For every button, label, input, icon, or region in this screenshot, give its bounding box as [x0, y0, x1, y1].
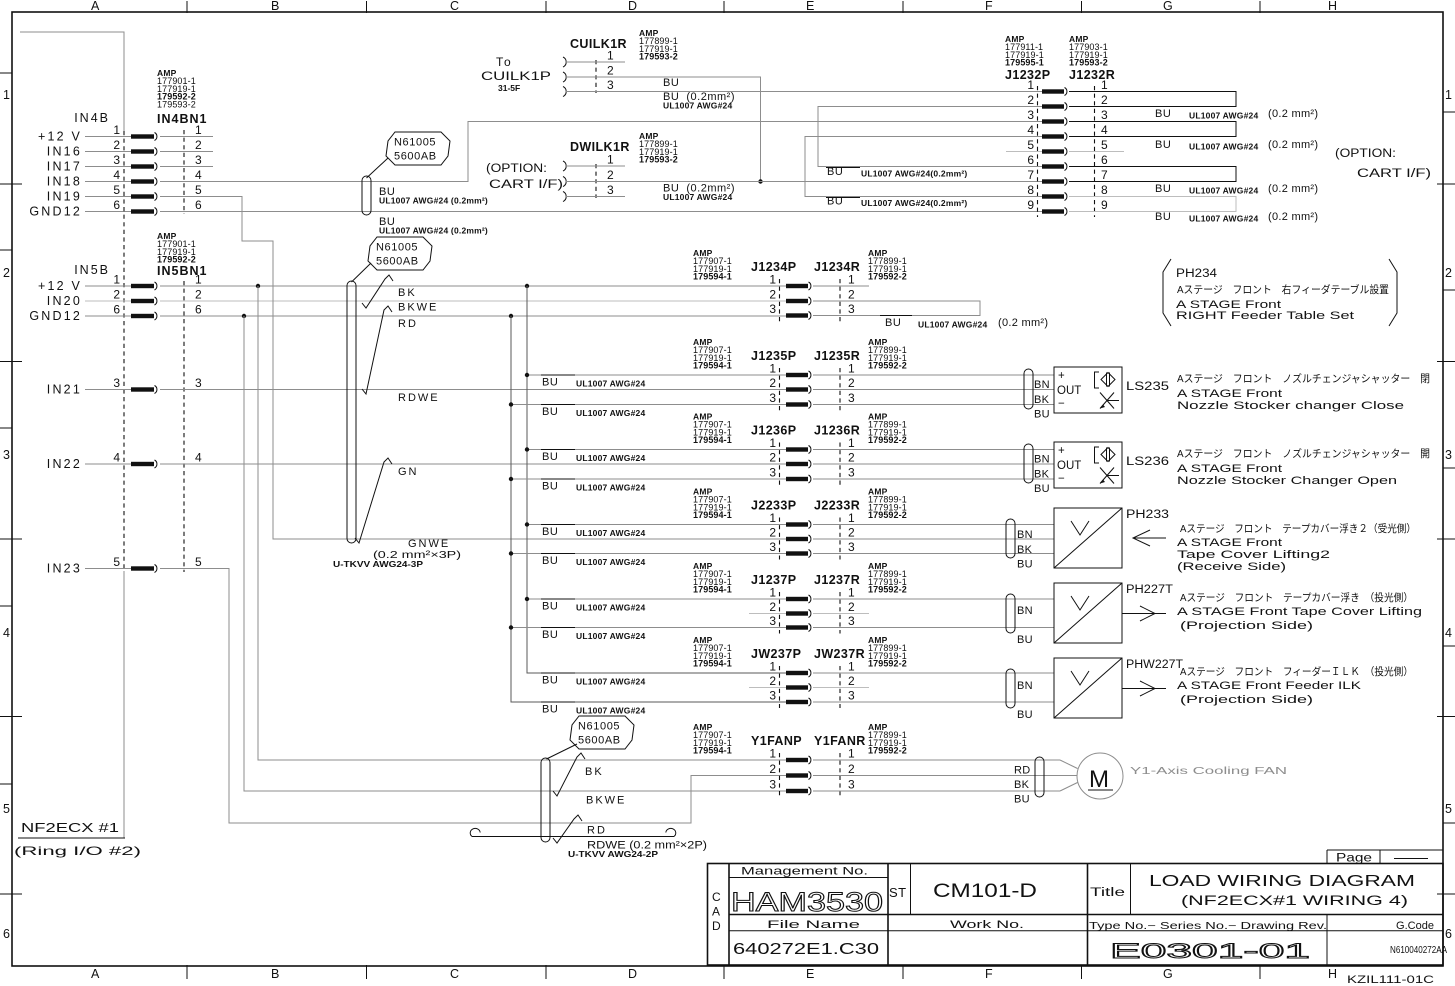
- svg-text:Y1FANR: Y1FANR: [814, 734, 866, 748]
- svg-text:BU: BU: [542, 451, 558, 463]
- wire net IN21 to J1235P pin2: [160, 389, 786, 391]
- label RDWE: [398, 392, 440, 404]
- svg-text:BN: BN: [1017, 529, 1033, 541]
- svg-text:Type No.− Series No.− Drawing: Type No.− Series No.− Drawing Rev.: [1089, 921, 1327, 932]
- label BK fan: [585, 766, 604, 778]
- svg-text:OUT: OUT: [1057, 385, 1081, 397]
- svg-text:2: 2: [113, 138, 120, 152]
- svg-text:179594-1: 179594-1: [693, 746, 732, 756]
- svg-text:2: 2: [769, 376, 776, 390]
- svg-text:3: 3: [769, 689, 776, 703]
- svg-text:JW237P: JW237P: [751, 647, 801, 661]
- svg-text:NF2ECX #1: NF2ECX #1: [21, 820, 119, 835]
- arrow receive PH233: [1133, 530, 1166, 546]
- wire IN4B pin2 stub: [160, 151, 213, 153]
- svg-text:+12 V: +12 V: [38, 130, 82, 144]
- svg-text:IN21: IN21: [47, 383, 82, 397]
- svg-text:UL1007 AWG#24: UL1007 AWG#24: [1189, 186, 1258, 196]
- svg-text:GND12: GND12: [29, 309, 82, 323]
- svg-text:+: +: [1058, 445, 1065, 457]
- wire RDWE spare coiled: [470, 828, 676, 836]
- wires J1237R to PH227T: [813, 599, 1054, 628]
- svg-text:UL1007 AWG#24: UL1007 AWG#24: [663, 192, 732, 202]
- label PH233 english: [1177, 537, 1330, 573]
- svg-text:GND12: GND12: [29, 205, 82, 219]
- svg-text:9: 9: [1027, 198, 1034, 212]
- connector IN4B (IN4BN1): [29, 68, 207, 569]
- label BU right loop3-4: [1155, 139, 1318, 152]
- svg-text:1: 1: [195, 273, 202, 287]
- svg-text:3: 3: [113, 153, 120, 167]
- svg-text:F: F: [985, 0, 993, 13]
- svg-text:(Ring I/O #2): (Ring I/O #2): [14, 844, 141, 858]
- svg-text:UL1007 AWG#24: UL1007 AWG#24: [918, 320, 987, 330]
- svg-text:G: G: [1163, 967, 1173, 981]
- label LS236 english: [1177, 463, 1397, 487]
- svg-text:2: 2: [1027, 93, 1034, 107]
- svg-text:LS236: LS236: [1126, 456, 1169, 468]
- svg-text:3: 3: [848, 689, 855, 703]
- svg-text:RDWE: RDWE: [398, 392, 440, 404]
- svg-text:G.Code: G.Code: [1396, 920, 1434, 932]
- svg-text:LS235: LS235: [1126, 381, 1169, 393]
- wire net GND12(IN4B) to J1232P pin9: [160, 211, 1042, 213]
- svg-text:2: 2: [607, 64, 614, 78]
- svg-text:F: F: [985, 967, 993, 981]
- labels BN BK BU PH233: [1017, 529, 1033, 571]
- svg-text:3: 3: [848, 540, 855, 554]
- svg-text:+: +: [1058, 370, 1065, 382]
- svg-text:2: 2: [769, 526, 776, 540]
- svg-text:1: 1: [769, 511, 776, 525]
- wire J1232R loop pins3-4: [1069, 122, 1236, 137]
- svg-text:−: −: [1058, 473, 1065, 485]
- svg-text:BU: BU: [542, 629, 558, 641]
- svg-text:5600AB: 5600AB: [578, 735, 621, 747]
- arrow project PHW227T: [1122, 681, 1166, 696]
- wire J1232R loop pins6-7: [1069, 167, 1236, 182]
- svg-text:3: 3: [3, 448, 10, 462]
- wire net IN19 to J2233P pin2: [160, 197, 786, 540]
- svg-text:UL1007 AWG#24(0.2mm²): UL1007 AWG#24(0.2mm²): [861, 198, 967, 208]
- svg-text:1: 1: [848, 273, 855, 287]
- svg-text:2: 2: [1101, 93, 1108, 107]
- svg-text:UL1007 AWG#24: UL1007 AWG#24: [576, 677, 645, 687]
- svg-text:3: 3: [848, 614, 855, 628]
- svg-text:3: 3: [848, 466, 855, 480]
- wire IN4B pin3 stub: [160, 166, 213, 168]
- svg-text:3: 3: [848, 302, 855, 316]
- svg-text:N61005: N61005: [376, 242, 418, 254]
- svg-text:A: A: [91, 0, 100, 13]
- svg-text:1: 1: [769, 273, 776, 287]
- svg-text:5600AB: 5600AB: [394, 151, 437, 163]
- svg-text:Y1-Axis Cooling FAN: Y1-Axis Cooling FAN: [1130, 765, 1287, 777]
- svg-text:E: E: [806, 0, 814, 13]
- svg-text:PHW227T: PHW227T: [1126, 659, 1183, 671]
- svg-text:179592-2: 179592-2: [868, 659, 907, 669]
- svg-text:179592-2: 179592-2: [868, 585, 907, 595]
- svg-text:(Receive Side): (Receive Side): [1177, 561, 1286, 573]
- svg-text:UL1007 AWG#24: UL1007 AWG#24: [576, 603, 645, 613]
- svg-text:3: 3: [607, 78, 614, 92]
- label PHW227T japanese: [1180, 665, 1413, 678]
- svg-text:(Projection Side): (Projection Side): [1180, 620, 1313, 632]
- svg-text:2: 2: [848, 762, 855, 776]
- arrow project PH227T: [1122, 606, 1166, 621]
- svg-text:PH233: PH233: [1126, 509, 1169, 521]
- svg-text:BU: BU: [1017, 709, 1033, 721]
- label BU loop4-8: [826, 196, 967, 209]
- svg-text:1: 1: [3, 88, 10, 102]
- wire labels BU UL1007 column: [541, 375, 645, 716]
- svg-text:179592-2: 179592-2: [868, 272, 907, 282]
- svg-text:BU: BU: [827, 166, 843, 178]
- svg-text:1: 1: [848, 747, 855, 761]
- cable marker capsule PH233: [1006, 519, 1015, 558]
- label OPTION CART I/F right: [1335, 148, 1431, 180]
- svg-text:1: 1: [113, 273, 120, 287]
- wire color leader BK/BKWE: [362, 275, 393, 308]
- svg-text:(0.2 mm²): (0.2 mm²): [998, 317, 1048, 329]
- svg-text:PH234: PH234: [1176, 268, 1218, 280]
- svg-text:1: 1: [769, 436, 776, 450]
- svg-text:BU: BU: [1017, 634, 1033, 646]
- svg-text:Page: Page: [1336, 853, 1372, 865]
- label LS235 japanese: [1177, 372, 1430, 385]
- svg-text:BKWE: BKWE: [586, 795, 626, 807]
- svg-text:179594-1: 179594-1: [693, 585, 732, 595]
- label BK: [398, 287, 417, 299]
- svg-text:GN: GN: [398, 466, 419, 478]
- svg-text:UL1007 AWG#24: UL1007 AWG#24: [576, 379, 645, 389]
- sensor PHW227T: [1054, 658, 1183, 718]
- wire J1232R loop pins8-9: [1069, 197, 1236, 212]
- svg-text:7: 7: [1101, 168, 1108, 182]
- svg-text:1: 1: [1101, 78, 1108, 92]
- svg-text:5600AB: 5600AB: [376, 256, 419, 268]
- svg-text:2: 2: [3, 266, 10, 280]
- svg-text:BU: BU: [542, 377, 558, 389]
- svg-text:179592-2: 179592-2: [868, 435, 907, 445]
- svg-text:BU: BU: [542, 555, 558, 567]
- svg-text:N61005: N61005: [578, 721, 620, 733]
- svg-text:−: −: [1058, 398, 1065, 410]
- svg-text:DWILK1R: DWILK1R: [570, 140, 630, 154]
- svg-text:Aステージ フロント フィーダーＩＬＫ （投光側）: Aステージ フロント フィーダーＩＬＫ （投光側）: [1180, 665, 1413, 678]
- svg-text:BU: BU: [1014, 794, 1030, 806]
- svg-text:5: 5: [195, 183, 202, 197]
- svg-text:2: 2: [848, 451, 855, 465]
- svg-text:U-TKVV AWG24-2P: U-TKVV AWG24-2P: [568, 849, 658, 859]
- wire GND spine B (x511): [509, 316, 786, 702]
- svg-text:UL1007 AWG#24: UL1007 AWG#24: [576, 408, 645, 418]
- svg-text:A STAGE Front: A STAGE Front: [1177, 537, 1282, 549]
- svg-text:BU: BU: [663, 77, 679, 89]
- svg-text:IN20: IN20: [47, 294, 82, 308]
- svg-text:UL1007 AWG#24 (0.2mm²): UL1007 AWG#24 (0.2mm²): [379, 196, 488, 206]
- label BU wire IN18: [379, 186, 488, 206]
- svg-text:CART I/F): CART I/F): [1357, 168, 1431, 180]
- wires J2233R to PH233: [813, 525, 1054, 554]
- svg-text:D: D: [628, 0, 637, 13]
- wire color leader GN/GNWE: [355, 458, 392, 543]
- svg-text:BK: BK: [585, 766, 604, 778]
- svg-text:3: 3: [607, 183, 614, 197]
- svg-text:D: D: [628, 967, 637, 981]
- cable marker capsule motor: [1035, 757, 1044, 797]
- cable marker capsule PH227T: [1006, 594, 1015, 633]
- svg-text:3: 3: [113, 376, 120, 390]
- sensor LS235: [1054, 367, 1169, 413]
- wire J1232P pin5 stub: [1006, 151, 1042, 153]
- svg-text:CUILK1P: CUILK1P: [481, 69, 551, 83]
- balloon N61005/5600AB #2: [352, 237, 433, 282]
- svg-text:1: 1: [769, 586, 776, 600]
- connector J1232P/J1232R: [1005, 34, 1115, 217]
- svg-text:6: 6: [113, 303, 120, 317]
- label BKWE: [398, 302, 438, 314]
- svg-text:(OPTION:: (OPTION:: [486, 163, 547, 175]
- svg-text:Aステージ フロント 右フィーダテーブル設置: Aステージ フロント 右フィーダテーブル設置: [1177, 283, 1389, 296]
- svg-text:Y1FANP: Y1FANP: [751, 734, 802, 748]
- label KZIL111-01C: [1347, 974, 1434, 986]
- svg-text:179593-2: 179593-2: [639, 155, 678, 165]
- svg-text:H: H: [1328, 967, 1337, 981]
- svg-text:5: 5: [1445, 802, 1452, 816]
- svg-text:3: 3: [195, 376, 202, 390]
- svg-text:Nozzle Stocker changer Close: Nozzle Stocker changer Close: [1177, 400, 1404, 412]
- svg-text:BN: BN: [1034, 379, 1050, 391]
- svg-text:To: To: [496, 55, 513, 69]
- NF2ECX#1 unit boundary line: [14, 571, 141, 858]
- svg-text:3: 3: [1445, 448, 1452, 462]
- svg-text:3: 3: [1027, 108, 1034, 122]
- svg-text:1: 1: [1027, 78, 1034, 92]
- svg-text:(0.2 mm²): (0.2 mm²): [1268, 108, 1318, 120]
- svg-text:BK: BK: [1014, 779, 1030, 791]
- svg-text:File Name: File Name: [767, 919, 860, 931]
- label LS236 japanese: [1177, 447, 1430, 460]
- svg-text:A: A: [91, 967, 100, 981]
- connector J1236P/J1236R: [693, 412, 907, 486]
- connector DWILK1R: [486, 131, 678, 202]
- wire J1232R pin5 stub: [1069, 151, 1124, 153]
- wire DWILK1R pin3 stub: [566, 196, 625, 198]
- svg-text:RD: RD: [1014, 765, 1031, 777]
- svg-text:179592-2: 179592-2: [868, 746, 907, 756]
- label BU loop2-6: [826, 166, 967, 179]
- cable marker capsule N61005 (IN4B): [362, 176, 371, 215]
- wire J1234R loop pins2-3: [813, 301, 980, 316]
- svg-text:RD: RD: [587, 825, 607, 837]
- svg-text:IN16: IN16: [47, 145, 82, 159]
- svg-text:4: 4: [195, 168, 202, 182]
- wire J1232P left loop pins2-6: [818, 107, 1042, 167]
- svg-text:179594-1: 179594-1: [693, 361, 732, 371]
- svg-text:+12 V: +12 V: [38, 279, 82, 293]
- svg-text:2: 2: [848, 674, 855, 688]
- svg-text:Title: Title: [1090, 887, 1125, 899]
- svg-text:640272E1.C30: 640272E1.C30: [733, 941, 880, 958]
- svg-text:UL1007 AWG#24: UL1007 AWG#24: [1189, 142, 1258, 152]
- svg-text:3: 3: [769, 614, 776, 628]
- svg-text:5: 5: [1101, 138, 1108, 152]
- svg-text:BK: BK: [398, 287, 417, 299]
- svg-text:4: 4: [1445, 626, 1452, 640]
- svg-text:1: 1: [607, 49, 614, 63]
- svg-text:4: 4: [1101, 123, 1108, 137]
- svg-text:LOAD WIRING DIAGRAM: LOAD WIRING DIAGRAM: [1149, 873, 1415, 890]
- svg-text:2: 2: [848, 376, 855, 390]
- svg-text:3: 3: [848, 778, 855, 792]
- labels BN BU PH227T: [1017, 605, 1033, 646]
- svg-text:B: B: [271, 0, 279, 13]
- svg-text:A: A: [712, 905, 720, 919]
- svg-text:BU: BU: [1155, 108, 1171, 120]
- svg-text:Work No.: Work No.: [950, 919, 1024, 931]
- svg-text:4: 4: [3, 626, 10, 640]
- connector CUILK1R: [481, 28, 678, 97]
- svg-text:1: 1: [769, 660, 776, 674]
- svg-text:BU: BU: [542, 675, 558, 687]
- svg-text:5: 5: [3, 802, 10, 816]
- wire CUILK1R pin2 to DWILK junction: [566, 77, 763, 184]
- wires Y1FANR to motor: [813, 760, 1078, 791]
- svg-text:N61005: N61005: [394, 137, 436, 149]
- svg-text:UL1007 AWG#24: UL1007 AWG#24: [576, 528, 645, 538]
- note PH234 bracket: [1163, 259, 1397, 326]
- svg-text:3: 3: [769, 540, 776, 554]
- svg-text:4: 4: [1027, 123, 1034, 137]
- svg-text:2: 2: [848, 288, 855, 302]
- label PH234: [1176, 268, 1218, 280]
- svg-text:3: 3: [769, 391, 776, 405]
- label BKWE fan: [586, 795, 626, 807]
- svg-text:179595-1: 179595-1: [1005, 58, 1044, 68]
- svg-text:4: 4: [113, 451, 120, 465]
- label Y1-Axis Cooling FAN: [1130, 765, 1287, 777]
- svg-text:C: C: [450, 967, 459, 981]
- svg-text:1: 1: [195, 123, 202, 137]
- svg-text:179594-1: 179594-1: [693, 435, 732, 445]
- svg-text:IN4B: IN4B: [74, 111, 110, 125]
- connector J1235P/J1235R: [693, 337, 907, 411]
- svg-text:2: 2: [607, 168, 614, 182]
- label PHW227T english: [1177, 680, 1362, 706]
- svg-text:Aステージ フロント テープカバー浮き （投光側）: Aステージ フロント テープカバー浮き （投光側）: [1180, 591, 1413, 604]
- svg-text:BK: BK: [1034, 394, 1050, 406]
- wires J1236R to LS236: [813, 450, 1054, 480]
- svg-text:BK: BK: [1017, 544, 1033, 556]
- svg-text:OUT: OUT: [1057, 460, 1081, 472]
- svg-text:2: 2: [769, 674, 776, 688]
- svg-text:E: E: [806, 967, 814, 981]
- svg-text:BU: BU: [885, 317, 901, 329]
- svg-text:1: 1: [848, 586, 855, 600]
- svg-text:IN5B: IN5B: [74, 263, 110, 277]
- wire J1232P left loop pins4-8: [805, 137, 1042, 197]
- svg-text:2: 2: [769, 762, 776, 776]
- svg-text:HAM3530: HAM3530: [731, 887, 883, 917]
- svg-text:Aステージ フロント ノズルチェンジャシャッター 開: Aステージ フロント ノズルチェンジャシャッター 開: [1177, 447, 1430, 460]
- svg-text:D: D: [712, 919, 721, 933]
- svg-text:1: 1: [769, 747, 776, 761]
- node NF2ECX#1 +12V feed wire: [20, 32, 124, 131]
- svg-text:6: 6: [195, 198, 202, 212]
- label BU CUILK pin3: [663, 91, 735, 111]
- svg-text:9: 9: [1101, 198, 1108, 212]
- svg-text:UL1007 AWG#24: UL1007 AWG#24: [576, 557, 645, 567]
- svg-text:C: C: [450, 0, 459, 13]
- svg-text:3: 3: [848, 391, 855, 405]
- labels RD BK BU motor: [1014, 765, 1031, 806]
- svg-text:H: H: [1328, 0, 1337, 13]
- wire net IN20 row to J1234P pin2: [160, 300, 786, 302]
- svg-text:E0301-01: E0301-01: [1110, 940, 1310, 963]
- svg-text:1: 1: [607, 153, 614, 167]
- svg-text:BU: BU: [1155, 139, 1171, 151]
- cable marker capsule LS235: [1024, 369, 1033, 409]
- label PH227T japanese: [1180, 591, 1413, 604]
- svg-text:PH227T: PH227T: [1126, 584, 1173, 596]
- label GN: [398, 466, 419, 478]
- label BU right loop6-7: [1155, 183, 1318, 196]
- wire color leader RD/RDWE fan: [553, 815, 582, 843]
- svg-text:1: 1: [113, 123, 120, 137]
- svg-text:BN: BN: [1034, 454, 1050, 466]
- svg-text:7: 7: [1027, 168, 1034, 182]
- label BU DWILK pin2: [663, 183, 735, 203]
- svg-text:UL1007 AWG#24: UL1007 AWG#24: [1189, 111, 1258, 121]
- svg-text:IN23: IN23: [47, 562, 82, 576]
- svg-text:179593-2: 179593-2: [639, 52, 678, 62]
- svg-text:UL1007 AWG#24 (0.2mm²): UL1007 AWG#24 (0.2mm²): [379, 226, 488, 236]
- connector J2233P/J2233R: [693, 487, 907, 560]
- svg-text:BU: BU: [1155, 183, 1171, 195]
- svg-text:8: 8: [1101, 183, 1108, 197]
- svg-text:1: 1: [848, 511, 855, 525]
- svg-text:IN19: IN19: [47, 190, 82, 204]
- svg-text:BU: BU: [542, 704, 558, 716]
- connector JW237P/JW237R: [693, 635, 907, 708]
- svg-text:(OPTION:: (OPTION:: [1335, 148, 1396, 160]
- wire CUILK1R pin1 stub: [566, 61, 625, 63]
- svg-text:BK: BK: [1034, 469, 1050, 481]
- svg-text:1: 1: [848, 436, 855, 450]
- wire DWILK1R pin1 stub: [566, 165, 625, 167]
- svg-text:C: C: [712, 890, 721, 904]
- svg-text:Nozzle Stocker Changer Open: Nozzle Stocker Changer Open: [1177, 475, 1397, 487]
- svg-text:UL1007 AWG#24: UL1007 AWG#24: [576, 483, 645, 493]
- svg-text:J1232R: J1232R: [1069, 68, 1115, 82]
- label PH233 japanese: [1180, 522, 1416, 535]
- svg-text:(0.2 mm²): (0.2 mm²): [1268, 139, 1318, 151]
- connector IN5B (IN5BN1): [29, 231, 207, 576]
- sensor LS236: [1054, 442, 1169, 488]
- svg-text:5: 5: [195, 555, 202, 569]
- svg-text:CUILK1R: CUILK1R: [570, 37, 627, 51]
- motor M Y1-Axis cooling fan: [1077, 753, 1123, 799]
- wire +12V spine B (x527): [525, 286, 786, 673]
- connector Y1FANP/Y1FANR: [693, 722, 907, 797]
- wires J1235R to LS235: [813, 375, 1054, 405]
- labels BN BU PHW227T: [1017, 680, 1033, 721]
- cable marker capsule Y1FAN cable: [541, 758, 550, 842]
- svg-text:6: 6: [195, 303, 202, 317]
- label PH234 english: [1176, 299, 1354, 322]
- wire DWILK1R pin2 to J1232P pin7: [566, 181, 1042, 183]
